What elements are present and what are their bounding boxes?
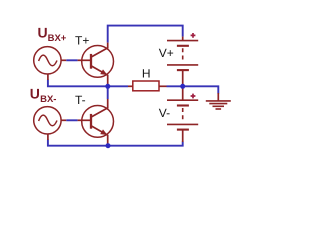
transistor T- base lead: [78, 119, 91, 121]
AC source UBX+ right lead: [61, 59, 66, 61]
wire source to base T+: [66, 59, 77, 61]
svg-text:BX+: BX+: [48, 33, 67, 44]
junction dot battery node: [180, 84, 185, 89]
AC source UBX+ sine: [39, 55, 57, 66]
junction dot bottom node: [106, 143, 111, 148]
transistor T+ circle: [82, 46, 114, 78]
battery V- plate short 1: [177, 104, 189, 106]
wire middle rail right: [167, 86, 219, 93]
wire T- collector: [107, 86, 109, 99]
transistor T+ emitter: [91, 66, 108, 85]
wire bottom rail: [48, 140, 183, 146]
ground lead: [217, 93, 219, 101]
wire middle rail left: [48, 80, 128, 87]
transistor T+ base bar: [90, 54, 92, 69]
svg-text:T-: T-: [75, 93, 86, 107]
battery V+ plate long 2: [167, 64, 198, 66]
AC source UBX- bottom lead: [47, 134, 49, 140]
transistor T- emitter arrow: [100, 129, 107, 135]
AC source UBX- sine: [39, 115, 57, 126]
transistor T+ base lead: [78, 59, 91, 61]
battery V+ plus sign: [191, 33, 196, 38]
transistor T- emitter: [91, 126, 108, 145]
AC source UBX+ bottom lead: [47, 74, 49, 80]
transistor T- base bar: [90, 114, 92, 129]
transistor T- circle: [82, 106, 114, 138]
battery V+ plate short 1: [177, 45, 189, 47]
battery V- bottom lead: [182, 130, 184, 142]
svg-text:U: U: [38, 25, 48, 41]
AC source UBX- right lead: [61, 119, 66, 121]
svg-text:T+: T+: [75, 33, 89, 47]
ground bar 1: [206, 100, 231, 102]
junction dot output node: [105, 84, 110, 89]
battery V+ bottom lead: [182, 70, 184, 85]
battery V+ plate long 1: [167, 40, 198, 42]
ground bar 2: [209, 103, 227, 105]
battery V- plus sign: [191, 94, 196, 99]
AC source UBX- circle: [34, 107, 61, 134]
svg-text:BX-: BX-: [40, 94, 56, 105]
svg-text:U: U: [30, 86, 40, 102]
svg-text:V-: V-: [159, 106, 170, 120]
battery V- dashed cells: [182, 108, 184, 122]
ground bar 3: [213, 105, 225, 107]
transistor T- collector: [91, 99, 108, 117]
element H box: [133, 81, 159, 91]
svg-text:H: H: [142, 66, 151, 80]
battery V+ dashed cells: [182, 48, 184, 62]
element H left lead: [128, 85, 133, 87]
svg-text:V+: V+: [159, 46, 174, 60]
battery V- plate short 2: [177, 129, 189, 131]
element H right lead: [159, 85, 167, 87]
node output: top rail wire: [108, 26, 183, 43]
battery V+ top lead: [182, 37, 184, 41]
battery V- plate long 1: [167, 99, 198, 101]
battery V- plate long 2: [167, 123, 198, 125]
transistor T+ emitter arrow: [100, 69, 107, 75]
battery V- top lead: [182, 88, 184, 101]
transistor T+ collector: [91, 43, 108, 58]
battery V+ plate short 2: [177, 69, 189, 71]
ground bar 4: [216, 108, 222, 110]
wire source to base T-: [66, 119, 77, 121]
AC source UBX+ circle: [34, 47, 61, 74]
